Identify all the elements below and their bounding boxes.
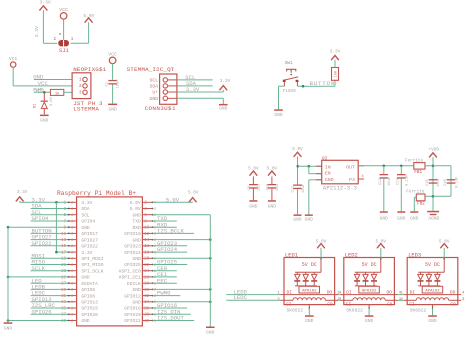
svg-text:FB1: FB1	[414, 170, 422, 175]
svg-text:C16: C16	[444, 178, 448, 186]
svg-text:GND: GND	[150, 96, 159, 102]
svg-text:2: 2	[53, 38, 56, 42]
svg-text:SCL: SCL	[150, 78, 159, 84]
svg-text:GND: GND	[133, 256, 142, 262]
svg-text:36: 36	[144, 307, 150, 311]
svg-text:GPIO4: GPIO4	[81, 219, 95, 225]
svg-text:LSTEMMA: LSTEMMA	[73, 106, 99, 113]
svg-text:GPIO18: GPIO18	[124, 231, 141, 237]
svg-text:2: 2	[71, 264, 73, 268]
svg-text:38: 38	[144, 314, 150, 318]
svg-text:SDA: SDA	[81, 206, 90, 212]
svg-text:+VDD: +VDD	[429, 147, 440, 152]
svg-text:SK6822: SK6822	[287, 308, 304, 314]
svg-text:DO: DO	[327, 290, 333, 296]
svg-text:NEOPIXG$1: NEOPIXG$1	[73, 66, 106, 73]
svg-text:GPIO4: GPIO4	[32, 215, 49, 222]
svg-text:DO: DO	[386, 290, 392, 296]
svg-text:FB2: FB2	[417, 201, 425, 206]
svg-text:10u: 10u	[257, 184, 261, 191]
svg-text:10u: 10u	[276, 184, 280, 191]
svg-text:3: 3	[462, 298, 465, 302]
svg-text:LEDC: LEDC	[234, 294, 248, 301]
svg-text:10uF: 10uF	[437, 177, 441, 187]
svg-text:GPIO19: GPIO19	[81, 306, 98, 312]
svg-text:2: 2	[154, 208, 156, 212]
svg-text:SK6822: SK6822	[410, 308, 427, 314]
svg-text:12: 12	[144, 233, 150, 237]
svg-text:GPIO17: GPIO17	[81, 231, 98, 237]
svg-text:I2S_BCLK: I2S_BCLK	[157, 228, 184, 235]
svg-text:2: 2	[71, 320, 73, 324]
svg-text:LED3: LED3	[408, 252, 421, 258]
svg-text:APA102: APA102	[425, 290, 440, 294]
svg-text:2: 2	[71, 233, 73, 237]
svg-text:2: 2	[71, 214, 73, 218]
svg-text:GND: GND	[108, 106, 117, 112]
svg-text:GPIO23: GPIO23	[124, 244, 141, 250]
svg-text:2: 2	[71, 251, 73, 255]
svg-text:GND: GND	[133, 237, 142, 243]
svg-text:4: 4	[362, 175, 364, 179]
svg-text:EN: EN	[325, 170, 331, 176]
svg-text:VCC: VCC	[9, 56, 18, 62]
svg-text:GND: GND	[397, 216, 406, 222]
svg-text:24: 24	[144, 270, 150, 274]
svg-text:LED1: LED1	[285, 252, 298, 258]
svg-text:10uF: 10uF	[117, 79, 121, 89]
svg-text:3.3V: 3.3V	[220, 79, 231, 84]
svg-text:C13: C13	[396, 177, 400, 185]
svg-text:C12: C12	[379, 177, 383, 185]
svg-text:I2S_DOUT: I2S_DOUT	[157, 315, 184, 322]
svg-text:3.3V: 3.3V	[81, 250, 92, 256]
svg-text:APA102: APA102	[302, 290, 317, 294]
svg-text:34: 34	[144, 301, 150, 305]
svg-text:5.0V: 5.0V	[166, 196, 180, 203]
svg-text:10K: 10K	[335, 70, 339, 78]
svg-text:5.0V: 5.0V	[130, 206, 141, 212]
svg-text:GPIO24: GPIO24	[124, 250, 141, 256]
svg-text:#SPI_CE1: #SPI_CE1	[119, 275, 141, 281]
svg-text:3.3V: 3.3V	[40, 0, 51, 6]
svg-text:2: 2	[71, 289, 73, 293]
svg-text:DI: DI	[346, 290, 352, 296]
svg-text:2: 2	[71, 301, 73, 305]
svg-text:AP2112-3.3: AP2112-3.3	[323, 184, 357, 191]
svg-text:GPIO25: GPIO25	[124, 262, 141, 268]
svg-text:5V DC: 5V DC	[302, 262, 317, 268]
svg-text:22: 22	[144, 264, 150, 268]
svg-text:GND: GND	[206, 330, 215, 336]
svg-text:10: 10	[144, 227, 150, 231]
svg-text:2: 2	[71, 220, 73, 224]
svg-text:D1: D1	[33, 103, 37, 108]
svg-text:5.0V: 5.0V	[188, 191, 199, 196]
svg-text:GND: GND	[293, 217, 302, 223]
svg-text:CO: CO	[327, 302, 333, 308]
svg-text:2: 2	[71, 227, 73, 231]
svg-text:20: 20	[144, 258, 150, 262]
svg-text:2: 2	[71, 295, 73, 299]
svg-text:3.3V: 3.3V	[17, 190, 28, 195]
svg-text:1k: 1k	[55, 91, 60, 96]
svg-text:2: 2	[71, 239, 73, 243]
svg-text:2: 2	[71, 202, 73, 206]
svg-text:SK6822: SK6822	[346, 308, 363, 314]
svg-text:3: 3	[79, 92, 82, 96]
svg-text:GPIO27: GPIO27	[81, 237, 98, 243]
svg-text:28: 28	[144, 283, 150, 287]
svg-text:VCC: VCC	[38, 80, 49, 87]
svg-text:GPIO21: GPIO21	[124, 318, 141, 324]
svg-text:GND: GND	[380, 216, 389, 222]
svg-text:BUTTON: BUTTON	[310, 80, 335, 87]
svg-text:GPIO24: GPIO24	[157, 246, 178, 253]
svg-text:GPIO5: GPIO5	[81, 287, 95, 293]
svg-text:2: 2	[71, 276, 73, 280]
svg-text:GND: GND	[428, 318, 437, 324]
svg-text:GND: GND	[219, 106, 228, 112]
svg-text:GND: GND	[81, 275, 90, 281]
svg-text:3.3V: 3.3V	[34, 26, 40, 37]
svg-text:APA102: APA102	[362, 290, 377, 294]
svg-text:P4: P4	[349, 177, 355, 183]
svg-text:GND: GND	[274, 112, 283, 118]
svg-text:10uF: 10uF	[302, 183, 306, 193]
svg-text:CO: CO	[387, 302, 393, 308]
svg-text:EECLK: EECLK	[127, 281, 141, 287]
svg-text:GND: GND	[81, 225, 90, 231]
svg-text:F1020: F1020	[283, 89, 296, 94]
svg-text:GND: GND	[133, 212, 142, 218]
svg-text:OUT: OUT	[346, 164, 355, 170]
svg-text:C15: C15	[426, 178, 430, 186]
svg-text:GPIO12: GPIO12	[124, 293, 141, 299]
svg-text:GND: GND	[325, 177, 334, 183]
svg-text:2: 2	[71, 245, 73, 249]
svg-text:3.3V: 3.3V	[330, 49, 341, 54]
svg-text:SCL: SCL	[81, 212, 90, 218]
svg-text:CO: CO	[450, 302, 456, 308]
svg-text:#SPI_CE0: #SPI_CE0	[119, 268, 141, 274]
svg-text:GPIO16: GPIO16	[124, 306, 141, 312]
svg-text:GPIO26: GPIO26	[32, 308, 52, 315]
svg-text:SJ1: SJ1	[59, 48, 69, 54]
svg-text:PWM0: PWM0	[157, 290, 171, 297]
svg-text:VCC: VCC	[108, 51, 117, 57]
svg-text:GND: GND	[365, 318, 374, 324]
svg-text:IN: IN	[325, 164, 331, 170]
svg-text:C11: C11	[291, 185, 295, 193]
svg-text:GPIO20: GPIO20	[124, 312, 141, 318]
svg-text:GND: GND	[305, 318, 314, 324]
svg-text:26: 26	[144, 276, 150, 280]
svg-text:CI: CI	[286, 302, 292, 308]
svg-text:GPIO13: GPIO13	[81, 300, 98, 306]
svg-text:14: 14	[144, 239, 150, 243]
svg-text:GPIO26: GPIO26	[81, 312, 98, 318]
svg-text:C9: C9	[248, 185, 252, 190]
svg-text:SPI_MOSI: SPI_MOSI	[81, 256, 103, 262]
svg-text:2: 2	[71, 314, 73, 318]
svg-text:3.3V: 3.3V	[81, 200, 92, 206]
svg-text:C10: C10	[267, 183, 271, 191]
svg-text:SCLK: SCLK	[32, 265, 46, 272]
svg-text:GND: GND	[410, 216, 419, 222]
svg-text:DO: DO	[450, 290, 456, 296]
svg-text:16: 16	[144, 245, 150, 249]
svg-text:1: 1	[79, 79, 82, 83]
svg-text:CI: CI	[346, 302, 352, 308]
svg-text:18: 18	[144, 252, 150, 256]
svg-text:U+: U+	[152, 90, 158, 96]
svg-text:GPIO22: GPIO22	[81, 244, 98, 250]
svg-text:2: 2	[71, 307, 73, 311]
svg-text:5V DC: 5V DC	[362, 262, 377, 268]
svg-text:LED2: LED2	[345, 252, 358, 258]
svg-text:2: 2	[71, 283, 73, 287]
svg-text:GND: GND	[81, 318, 90, 324]
svg-text:GND: GND	[133, 287, 142, 293]
svg-text:0.1uF: 0.1uF	[406, 174, 410, 186]
svg-text:CI: CI	[409, 302, 415, 308]
svg-text:AGND: AGND	[428, 216, 439, 222]
svg-text:GPIO6: GPIO6	[81, 293, 95, 299]
svg-text:SPI_SCLK: SPI_SCLK	[81, 268, 103, 274]
svg-text:3.6V: 3.6V	[50, 96, 54, 106]
svg-text:GND: GND	[268, 204, 277, 210]
svg-text:GPIO22: GPIO22	[32, 240, 52, 247]
svg-text:SPI_MISO: SPI_MISO	[81, 262, 103, 268]
svg-text:C1: C1	[105, 81, 109, 86]
svg-text:2: 2	[71, 208, 73, 212]
svg-text:DI: DI	[410, 290, 416, 296]
svg-text:4: 4	[462, 292, 465, 296]
svg-text:10uF: 10uF	[388, 176, 392, 186]
svg-text:5.0V: 5.0V	[292, 147, 303, 152]
svg-text:3.3V: 3.3V	[186, 86, 200, 93]
svg-text:TXD: TXD	[133, 219, 142, 225]
svg-text:2: 2	[79, 85, 82, 89]
svg-text:Raspberry Pi Model B+: Raspberry Pi Model B+	[57, 190, 136, 197]
svg-text:1: 1	[71, 38, 74, 42]
svg-text:GND: GND	[305, 217, 314, 223]
svg-text:SDA: SDA	[150, 84, 159, 90]
svg-text:GND: GND	[133, 300, 142, 306]
svg-text:EEDATA: EEDATA	[81, 281, 98, 287]
svg-text:2: 2	[71, 258, 73, 262]
svg-text:GND: GND	[4, 326, 13, 332]
svg-text:RXD: RXD	[133, 225, 142, 231]
svg-text:2: 2	[71, 270, 73, 274]
svg-text:CONN3U$1: CONN3U$1	[145, 105, 176, 112]
svg-text:DI: DI	[287, 290, 293, 296]
svg-text:GND: GND	[40, 117, 49, 123]
svg-text:30: 30	[144, 289, 150, 293]
svg-text:SW1: SW1	[285, 60, 293, 66]
svg-text:GND: GND	[249, 204, 258, 210]
svg-text:STEMMA_I2C_QT: STEMMA_I2C_QT	[127, 66, 175, 73]
svg-text:5.0V: 5.0V	[130, 200, 141, 206]
svg-text:40: 40	[144, 320, 150, 324]
svg-text:EEC: EEC	[157, 277, 168, 284]
svg-text:32: 32	[144, 295, 150, 299]
svg-text:5V DC: 5V DC	[425, 262, 440, 268]
svg-text:0.1uF: 0.1uF	[455, 176, 459, 188]
